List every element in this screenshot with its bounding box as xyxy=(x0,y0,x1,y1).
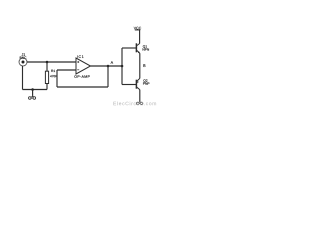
label OP-AMP xyxy=(74,75,89,78)
resistor R1 xyxy=(45,71,48,83)
junction dot ground tap xyxy=(31,88,34,91)
wire ground stem xyxy=(32,90,34,96)
wire emitters vertical xyxy=(139,53,141,78)
wire feedback left vertical xyxy=(56,70,58,87)
watermark xyxy=(113,102,156,106)
label J1 xyxy=(22,53,25,55)
junction dot bases tap xyxy=(121,65,124,68)
label NPN xyxy=(143,48,149,50)
wire feedback bottom xyxy=(57,86,108,88)
ground symbol (right) xyxy=(136,101,142,105)
wire R1 bottom stem xyxy=(46,84,48,90)
label BNC xyxy=(20,57,27,59)
node B xyxy=(143,64,145,67)
wire bases vertical xyxy=(121,48,123,85)
connector J1 (BNC) xyxy=(19,58,27,66)
label Q1 xyxy=(143,45,147,48)
label R1 xyxy=(51,70,55,72)
power VCC symbol xyxy=(135,29,140,31)
junction dot feedback tap xyxy=(107,65,110,68)
transistor Q2 xyxy=(136,78,139,89)
wire Q2 base xyxy=(122,84,136,86)
wire Q1 collector to VCC xyxy=(139,30,141,44)
label Q2 xyxy=(143,79,147,82)
wire feedback right vertical xyxy=(107,66,109,87)
wire Q2 collector to ground xyxy=(139,90,141,102)
wire op-amp output xyxy=(91,65,123,67)
transistor Q1 xyxy=(136,43,140,53)
op-amp IC1 xyxy=(76,58,91,74)
op-amp +input mark xyxy=(77,61,79,63)
label VCC xyxy=(134,27,141,30)
wire ground rail xyxy=(23,89,48,91)
wire BNC output to op-amp +input xyxy=(27,61,76,63)
wire op-amp -input xyxy=(57,69,76,71)
wire BNC ground stem xyxy=(22,66,24,90)
value 470K xyxy=(50,75,57,77)
junction dot at R1 top xyxy=(46,61,49,64)
node A xyxy=(111,61,114,64)
label PNP xyxy=(143,82,149,84)
op-amp -input mark xyxy=(77,69,79,71)
wire R1 top stem xyxy=(46,62,48,71)
ground symbol (left) xyxy=(29,95,36,99)
wire Q1 base xyxy=(122,47,136,49)
label IC1 xyxy=(77,55,83,58)
